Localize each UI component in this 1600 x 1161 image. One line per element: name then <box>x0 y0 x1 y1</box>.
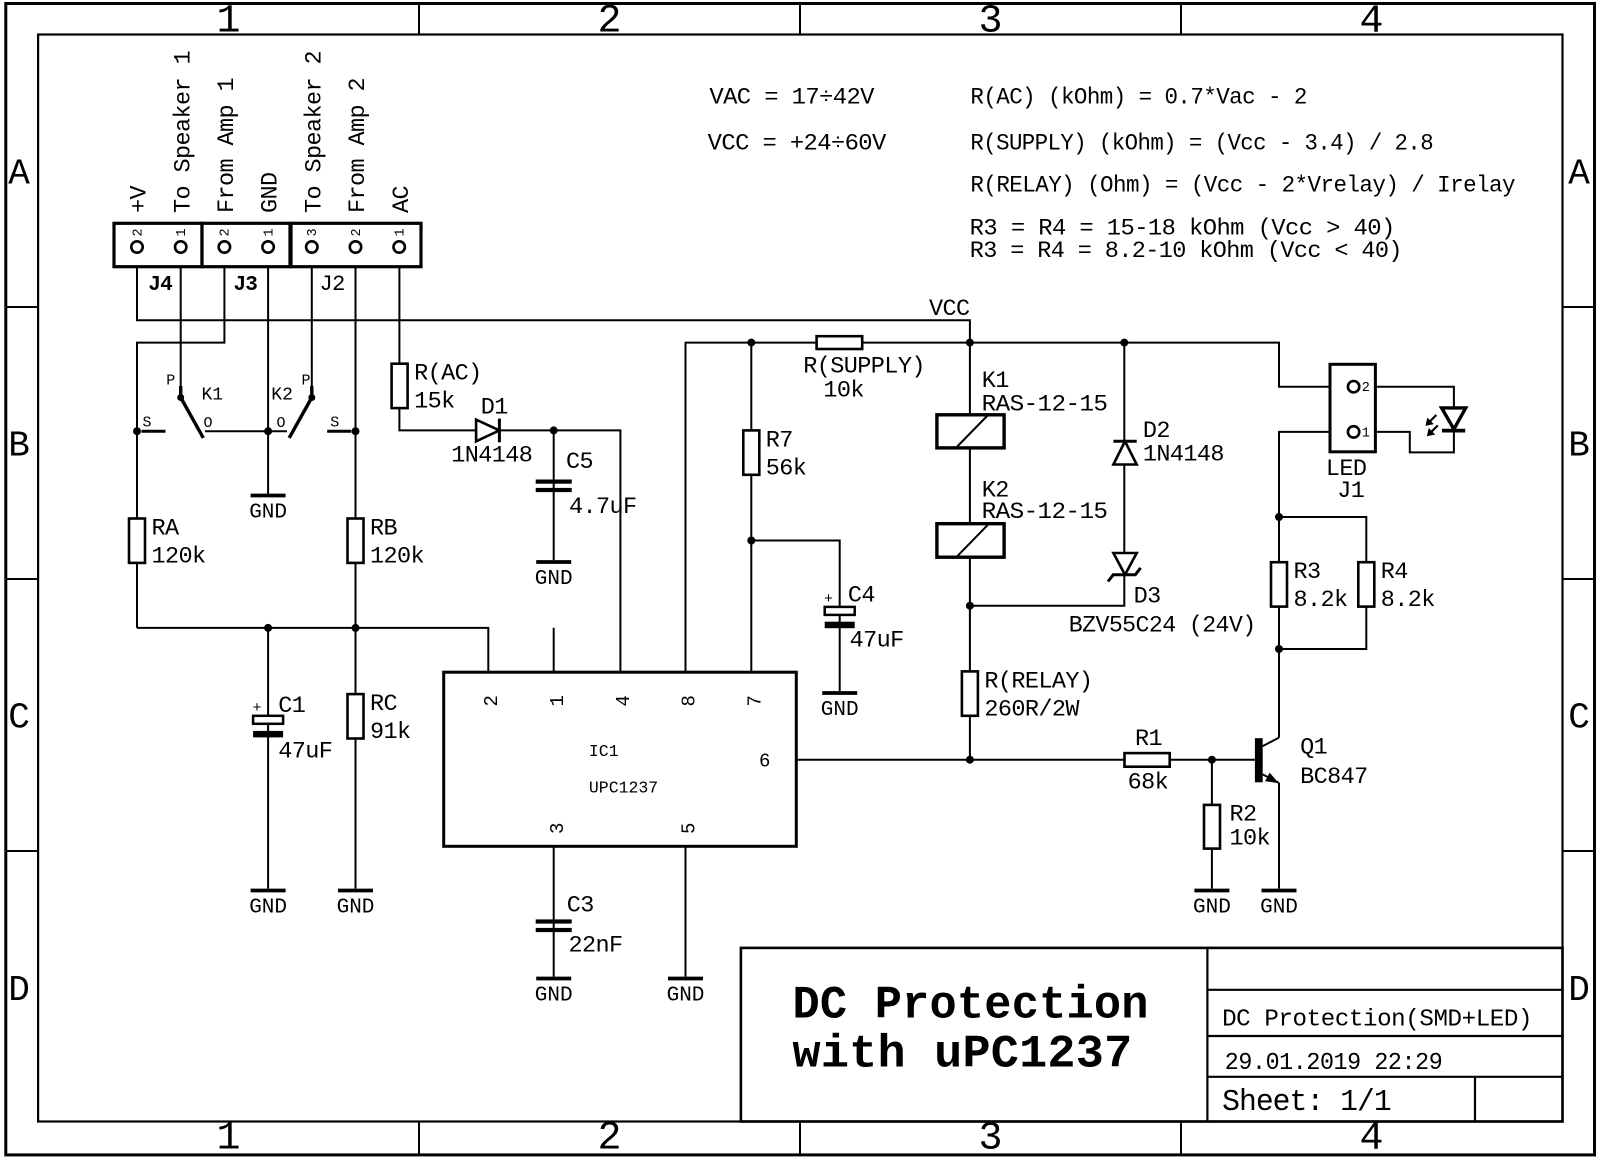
svg-text:VAC = 17÷42V: VAC = 17÷42V <box>709 85 874 112</box>
junction bus/C1 <box>264 624 272 632</box>
svg-text:C1: C1 <box>278 693 305 720</box>
svg-text:DC Protection(SMD+LED): DC Protection(SMD+LED) <box>1222 1006 1532 1033</box>
svg-text:R(RELAY): R(RELAY) <box>984 668 1092 695</box>
transistor Q1 emitter lead <box>1263 774 1279 782</box>
svg-text:R4: R4 <box>1381 559 1408 586</box>
IC U1 (IC1 uPC1237) body <box>444 672 797 846</box>
resistor R1 <box>1125 753 1170 767</box>
switch K2 S contact <box>327 430 351 433</box>
svg-text:VCC = +24÷60V: VCC = +24÷60V <box>708 130 887 157</box>
wire IC1 pin 6 to Q1 base through R1 <box>796 759 1255 761</box>
svg-text:R(AC) (kOhm) = 0.7*Vac - 2: R(AC) (kOhm) = 0.7*Vac - 2 <box>970 85 1306 112</box>
svg-text:8: 8 <box>679 695 701 706</box>
frame row ticks right <box>1563 307 1595 851</box>
svg-text:RAS-12-15: RAS-12-15 <box>982 499 1108 526</box>
ground Q1 emitter <box>1262 889 1297 893</box>
svg-text:1: 1 <box>547 695 569 706</box>
svg-text:D1: D1 <box>481 395 508 422</box>
junction switch common/GND <box>264 427 272 435</box>
svg-text:BZV55C24 (24V): BZV55C24 (24V) <box>1069 613 1256 640</box>
switch K1 S contact <box>142 430 166 433</box>
wire D2/D3 column: VCC junction down through D2 D3, left to relay bottom <box>970 343 1124 606</box>
svg-text:GND: GND <box>249 502 287 525</box>
wire R2 branch: base junction down through R2 to ground <box>1211 760 1213 889</box>
junction VCC/relays <box>966 339 974 347</box>
svg-text:D: D <box>1568 970 1590 1011</box>
wire From Amp 1: J3 pin2 down, left, down through RA to bus <box>137 254 224 628</box>
svg-text:A: A <box>8 153 30 194</box>
wire J1 pin1 left, down through R3 to collector junction <box>1279 432 1330 649</box>
svg-text:1: 1 <box>216 1117 240 1161</box>
svg-text:P: P <box>166 373 175 390</box>
svg-text:J3: J3 <box>234 274 258 297</box>
svg-text:D: D <box>8 970 30 1011</box>
svg-text:2: 2 <box>350 228 365 236</box>
ground C3 <box>536 977 571 981</box>
pin 2 of connector (+V) <box>131 241 142 252</box>
svg-text:1: 1 <box>1362 426 1370 441</box>
junction pin6/R(RELAY) <box>966 756 974 764</box>
svg-text:K2: K2 <box>271 385 293 405</box>
wire IC1 pin 3 through C3 to ground <box>553 846 555 976</box>
wire GND net: J3 pin1 down to ground <box>267 254 269 495</box>
svg-text:2: 2 <box>597 1117 621 1161</box>
svg-text:3: 3 <box>978 0 1002 45</box>
junction D1/C5/pin4 <box>550 426 558 434</box>
svg-text:C3: C3 <box>567 893 594 920</box>
resistor R4 <box>1358 562 1374 606</box>
svg-text:22nF: 22nF <box>569 933 623 960</box>
svg-text:RB: RB <box>370 516 398 543</box>
ground R2 <box>1194 889 1229 893</box>
wire K1 O contact to center junction <box>205 430 268 432</box>
svg-text:J2: J2 <box>320 272 345 297</box>
wire IC1 pin 1 stub <box>553 628 555 672</box>
svg-text:2: 2 <box>131 228 146 236</box>
svg-text:47uF: 47uF <box>850 627 904 654</box>
pin 1 of connector (AC) <box>394 241 405 252</box>
svg-text:C: C <box>8 698 30 739</box>
connector J3 body <box>202 223 290 266</box>
svg-text:J4: J4 <box>148 274 172 297</box>
capacitor C1 (polarized) <box>253 716 283 724</box>
switch K1 pole stub <box>179 386 182 398</box>
svg-text:1: 1 <box>394 228 409 236</box>
wire IC1 pin 5 to ground <box>685 846 687 976</box>
svg-text:To Speaker 1: To Speaker 1 <box>170 51 197 213</box>
connector J2 body <box>291 223 421 266</box>
svg-text:2: 2 <box>1362 381 1370 396</box>
svg-text:1: 1 <box>175 228 190 236</box>
resistor R3 <box>1271 562 1287 606</box>
LED light arrow 1 <box>1428 415 1436 423</box>
ground C5 <box>536 560 571 564</box>
resistor R2 <box>1204 805 1220 849</box>
LED symbol <box>1442 408 1466 429</box>
zener diode D3 <box>1113 553 1136 575</box>
title block outline <box>741 948 1563 1122</box>
svg-text:10k: 10k <box>1230 826 1271 853</box>
capacitor C5 <box>536 480 572 484</box>
svg-text:4: 4 <box>1359 0 1383 45</box>
wire bus RA/RB to IC1 pin 2 <box>137 628 488 672</box>
wire VCC rail: IC1 pin 8 up, right through R(SUPPLY) to J1 pin 2 <box>686 343 1331 673</box>
svg-text:4.7uF: 4.7uF <box>569 494 637 521</box>
svg-text:Sheet: 1/1: Sheet: 1/1 <box>1222 1085 1391 1120</box>
capacitor C4 (polarized) <box>825 607 855 615</box>
resistor RB <box>348 519 364 563</box>
svg-text:91k: 91k <box>370 719 411 746</box>
svg-text:3: 3 <box>306 228 321 236</box>
svg-text:R(SUPPLY): R(SUPPLY) <box>803 354 925 381</box>
wire LED: J1 pin2 to LED anode, cathode back to J1 pin1 <box>1375 387 1454 453</box>
svg-text:J1: J1 <box>1337 478 1364 505</box>
title block bottom-right cell divider <box>1474 1077 1476 1122</box>
wire C1 branch: bus junction down through C1 to ground <box>267 628 269 889</box>
svg-text:GND: GND <box>337 897 375 920</box>
wire C4 branch: R7 bottom junction right, down through C4 to ground <box>751 541 839 692</box>
svg-text:GND: GND <box>821 699 859 722</box>
svg-text:29.01.2019 22:29: 29.01.2019 22:29 <box>1225 1050 1443 1077</box>
svg-text:R(RELAY) (Ohm) = (Vcc - 2*Vrel: R(RELAY) (Ohm) = (Vcc - 2*Vrelay) / Irel… <box>970 172 1515 199</box>
ground RC <box>338 889 373 893</box>
title block divider vertical <box>1206 948 1208 1122</box>
ground switch common <box>251 494 286 498</box>
svg-text:GND: GND <box>667 985 705 1008</box>
connector J1 body <box>1330 364 1375 452</box>
svg-text:8.2k: 8.2k <box>1294 587 1348 614</box>
resistor RA <box>129 519 145 563</box>
svg-text:RAS-12-15: RAS-12-15 <box>982 391 1108 418</box>
svg-text:15k: 15k <box>414 389 455 416</box>
junction R1/R2/base <box>1208 756 1216 764</box>
pin 2 of connector (From Amp 1) <box>219 241 230 252</box>
svg-text:C4: C4 <box>848 583 875 610</box>
svg-text:1N4148: 1N4148 <box>451 443 532 470</box>
relay coil K2 <box>937 524 1004 558</box>
svg-text:To Speaker 2: To Speaker 2 <box>301 51 328 213</box>
svg-text:GND: GND <box>258 172 285 213</box>
transistor Q1 base bar <box>1255 738 1263 782</box>
svg-text:4: 4 <box>1359 1117 1383 1161</box>
svg-text:P: P <box>302 373 311 390</box>
svg-text:R(SUPPLY) (kOhm) = (Vcc - 3.4): R(SUPPLY) (kOhm) = (Vcc - 3.4) / 2.8 <box>970 130 1433 157</box>
svg-text:GND: GND <box>1193 897 1231 920</box>
svg-text:120k: 120k <box>370 544 424 571</box>
junction VCC/D2 <box>1120 339 1128 347</box>
svg-text:UPC1237: UPC1237 <box>589 779 658 798</box>
svg-text:O: O <box>204 415 213 432</box>
svg-text:260R/2W: 260R/2W <box>984 696 1080 723</box>
frame row ticks left <box>6 307 38 851</box>
svg-text:+V: +V <box>127 185 154 213</box>
wire C5 branch: junction down through C5 to ground <box>553 430 555 560</box>
resistor R(SUPPLY) <box>817 336 863 349</box>
svg-text:D3: D3 <box>1134 584 1161 611</box>
svg-text:K1: K1 <box>202 385 224 405</box>
svg-text:Q1: Q1 <box>1300 735 1327 762</box>
svg-text:R3: R3 <box>1294 559 1321 586</box>
svg-text:+: + <box>253 700 262 717</box>
switch K1 pole dot <box>177 394 184 401</box>
svg-text:GND: GND <box>1260 897 1298 920</box>
wire J4 pin1 to K1 pole <box>180 254 182 389</box>
frame column ticks top <box>419 4 1181 35</box>
svg-text:S: S <box>143 415 152 432</box>
svg-text:7: 7 <box>745 695 767 706</box>
svg-text:4: 4 <box>613 695 635 706</box>
switch K2 pole dot <box>308 394 315 401</box>
svg-text:GND: GND <box>535 985 573 1008</box>
resistor RC <box>348 694 364 738</box>
junction K1 S contact <box>133 427 141 435</box>
svg-text:RA: RA <box>152 516 181 543</box>
svg-text:6: 6 <box>759 751 770 773</box>
svg-text:1N4148: 1N4148 <box>1143 441 1224 468</box>
svg-text:C: C <box>1568 698 1590 739</box>
relay coil K1 <box>937 415 1004 448</box>
svg-text:1: 1 <box>262 228 277 236</box>
svg-text:IC1: IC1 <box>589 742 619 761</box>
LED light arrow 2 <box>1430 425 1438 433</box>
svg-text:5: 5 <box>679 823 701 834</box>
svg-text:3: 3 <box>547 823 569 834</box>
transistor Q1 emitter arrow <box>1265 773 1279 784</box>
title block row lines <box>1207 990 1562 1077</box>
junction R3/R4/collector <box>1275 645 1283 653</box>
svg-text:DC Protection: DC Protection <box>793 980 1149 1032</box>
svg-text:O: O <box>277 415 286 432</box>
junction relays/D3/R(RELAY) <box>966 602 974 610</box>
switch K2 pole stub <box>310 386 313 398</box>
junction J1/R3/R4 <box>1275 513 1283 521</box>
svg-text:R2: R2 <box>1230 801 1257 828</box>
frame column ticks bottom <box>419 1122 1181 1155</box>
svg-text:68k: 68k <box>1128 770 1169 797</box>
wire Q1 emitter to ground <box>1278 783 1280 889</box>
svg-text:8.2k: 8.2k <box>1381 587 1435 614</box>
resistor R(RELAY) <box>962 671 978 715</box>
svg-text:B: B <box>8 426 30 467</box>
capacitor C3 <box>536 919 572 923</box>
svg-text:S: S <box>330 415 339 432</box>
svg-text:R7: R7 <box>766 427 793 454</box>
ground IC1 pin5 <box>668 977 703 981</box>
svg-text:C5: C5 <box>566 449 593 476</box>
svg-text:47uF: 47uF <box>278 739 332 766</box>
svg-text:From Amp 2: From Amp 2 <box>345 78 372 213</box>
svg-text:2: 2 <box>219 228 234 236</box>
wire R7 column: VCC rail down through R7 to IC1 pin 7 <box>750 343 752 673</box>
diode D1 <box>476 420 499 442</box>
wire Q1 collector to R3/R4 junction <box>1278 649 1280 738</box>
svg-text:BC847: BC847 <box>1300 764 1368 791</box>
wire From Amp 2: J2 pin2 down through RB and RC to ground <box>355 254 357 889</box>
ground C4 <box>822 691 857 695</box>
wire K2 O contact to center junction <box>268 430 287 432</box>
junction R7/C4 <box>747 537 755 545</box>
svg-text:with uPC1237: with uPC1237 <box>793 1028 1133 1080</box>
pin 2 of J1 <box>1348 381 1359 392</box>
svg-text:1: 1 <box>216 0 240 45</box>
pin 1 of connector (To Speaker 1) <box>175 241 186 252</box>
svg-text:R3 = R4 = 8.2-10 kOhm (Vcc < 4: R3 = R4 = 8.2-10 kOhm (Vcc < 40) <box>970 238 1402 265</box>
wire +V net: J4 pin2 down, right to VCC junction <box>137 254 970 343</box>
wire AC: J2 pin1 down through R(AC) to D1 anode <box>399 254 476 430</box>
wire To Speaker 2: J2 pin3 to K2 pole <box>311 254 313 389</box>
svg-text:R(AC): R(AC) <box>414 361 482 388</box>
junction VCC/R7 <box>747 339 755 347</box>
resistor R(AC) <box>392 364 408 408</box>
pin 1 of connector (GND) <box>262 241 273 252</box>
svg-text:120k: 120k <box>152 544 206 571</box>
junction K2 S contact <box>352 427 360 435</box>
svg-text:+: + <box>824 591 833 608</box>
svg-text:A: A <box>1568 153 1590 194</box>
svg-text:3: 3 <box>978 1117 1002 1161</box>
svg-text:From Amp 1: From Amp 1 <box>214 78 241 213</box>
diode D2 <box>1113 440 1136 443</box>
connector J4 body <box>114 223 202 266</box>
svg-text:RC: RC <box>370 691 398 718</box>
transistor Q1 collector lead <box>1263 738 1279 747</box>
svg-text:10k: 10k <box>823 377 864 404</box>
switch K2 arm <box>289 398 312 438</box>
svg-text:2: 2 <box>597 0 621 45</box>
pin 2 of connector (From Amp 2) <box>350 241 361 252</box>
svg-text:GND: GND <box>249 897 287 920</box>
svg-text:VCC: VCC <box>929 296 970 323</box>
pin 1 of J1 <box>1348 426 1359 437</box>
svg-text:56k: 56k <box>766 455 807 482</box>
svg-text:2: 2 <box>481 695 503 706</box>
svg-text:B: B <box>1568 426 1590 467</box>
svg-text:AC: AC <box>389 185 416 213</box>
wire R4 branch parallel to R3 <box>1279 517 1366 649</box>
junction bus/RB <box>352 624 360 632</box>
wire relay column: VCC junction down through K1 K2 R(RELAY) to pin6 junction <box>969 343 971 760</box>
ground C1 <box>251 889 286 893</box>
wire D1 cathode to IC1 pin 4 <box>499 430 620 672</box>
resistor R7 <box>743 430 759 474</box>
svg-text:R1: R1 <box>1135 726 1162 753</box>
svg-text:GND: GND <box>535 568 573 591</box>
switch K1 arm <box>181 398 204 438</box>
pin 3 of connector (To Speaker 2) <box>306 241 317 252</box>
